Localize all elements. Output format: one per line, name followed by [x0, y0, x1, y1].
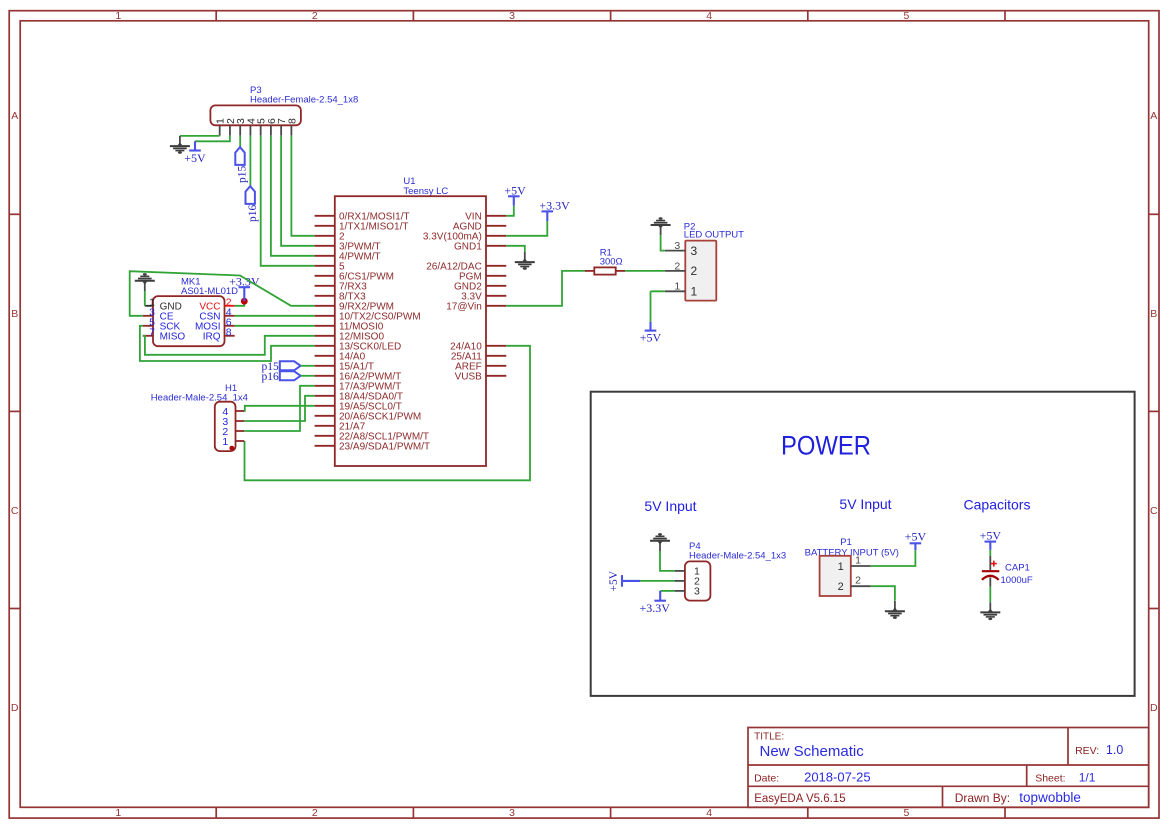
connector P4 body: [685, 561, 711, 600]
connector P3 body: [210, 105, 301, 125]
svg-text:B: B: [1150, 308, 1157, 320]
MK1 pin numbers right 2,4,6,8: [226, 296, 232, 338]
wire P2 pin1 to +5V: [651, 291, 665, 322]
wire P3 pin8 to U1 pin 2: [291, 136, 314, 236]
wire R1 to P2 pin2: [625, 270, 665, 272]
wire CAP1 to ground: [989, 587, 991, 602]
wire U1 17@Vin to R1: [506, 271, 585, 306]
wire U1 3.3V(100mA) to +3.3V: [506, 221, 547, 236]
MK1 pin names left: [160, 301, 186, 342]
svg-text:VUSB: VUSB: [455, 371, 483, 382]
connector P3 pin stubs: [220, 125, 292, 135]
wire U1 GND1 to ground: [506, 246, 525, 252]
svg-text:LED OUTPUT: LED OUTPUT: [684, 229, 744, 240]
svg-text:Sheet:: Sheet:: [1035, 772, 1065, 784]
svg-text:4: 4: [706, 807, 712, 819]
wire P3 pin2 to +5V: [195, 136, 230, 142]
svg-text:4/PWM/T: 4/PWM/T: [339, 251, 381, 262]
svg-text:Header-Male-2.54_1x3: Header-Male-2.54_1x3: [689, 551, 786, 562]
resistor R1 lead stubs: [585, 270, 625, 272]
svg-text:New Schematic: New Schematic: [760, 743, 865, 760]
svg-text:p16: p16: [247, 205, 259, 222]
net port p16 at U1: [262, 371, 301, 383]
wire P3 pin6 to U1 pin 4: [271, 136, 315, 256]
wire P3 pin4 to flag p16: [249, 136, 251, 186]
wire P4 pin2 to +5V: [632, 580, 675, 582]
U1 left pin names: [339, 211, 430, 452]
svg-text:1: 1: [691, 285, 698, 299]
wire H1 pin3 to U1 18/A4/SDA0/T: [244, 396, 314, 421]
wire U1 24/A10 to H1 pin1: [245, 346, 531, 481]
svg-text:2: 2: [838, 581, 844, 593]
power flag +5V at CAP1: [980, 529, 1002, 550]
svg-text:2: 2: [691, 264, 698, 278]
svg-text:Capacitors: Capacitors: [964, 496, 1031, 512]
svg-text:p16: p16: [262, 371, 280, 383]
power flag +5V at U1 VIN: [504, 184, 526, 206]
ground at MK1 GND: [135, 273, 155, 291]
svg-text:CAP1: CAP1: [1005, 562, 1030, 573]
svg-text:4: 4: [706, 10, 712, 22]
frame row ticks left: [9, 214, 20, 608]
svg-text:Header-Female-2.54_1x8: Header-Female-2.54_1x8: [250, 95, 358, 106]
svg-text:23/A9/SDA1/PWM/T: 23/A9/SDA1/PWM/T: [339, 441, 430, 452]
wire MK1 MOSI to U1 11/MOSI0: [235, 325, 315, 327]
svg-text:IRQ: IRQ: [203, 331, 221, 342]
svg-text:REV:: REV:: [1075, 745, 1099, 757]
junction dot at H1 pin1: [229, 446, 234, 451]
svg-text:A: A: [11, 110, 18, 122]
svg-text:GND1: GND1: [454, 241, 482, 252]
ground near P3 pin1: [170, 136, 190, 154]
wire +5V to CAP1: [989, 550, 991, 556]
svg-text:300Ω: 300Ω: [600, 256, 623, 267]
svg-text:+5V: +5V: [640, 331, 662, 345]
svg-text:17@Vin: 17@Vin: [446, 301, 482, 312]
svg-text:5: 5: [903, 10, 909, 22]
wire MK1 CE to U1 9/RX2/PWM (diagonal): [130, 271, 315, 316]
svg-text:8: 8: [286, 118, 298, 124]
wire P4 pin3 to +3.3V: [660, 590, 674, 592]
net port p15 at U1: [262, 361, 301, 373]
H1 pin stubs: [236, 411, 245, 441]
ground above P2: [651, 217, 671, 235]
H1 pin numbers 4,3,2,1: [222, 406, 228, 448]
wire U1 VIN to +5V: [506, 206, 514, 216]
P2 inside pin numbers: [691, 244, 698, 299]
connector P2 body: [685, 241, 716, 301]
net port p16 at P3: [246, 186, 259, 222]
svg-text:A: A: [1150, 110, 1157, 122]
wire p15 to U1 pin 15/A1/T: [301, 365, 315, 367]
connector H1 body: [215, 402, 236, 451]
svg-text:+3.3V: +3.3V: [229, 274, 260, 288]
wire H1 pin4 to U1 19/A5/SCL0/T: [244, 406, 314, 411]
connector P1 body: [820, 556, 851, 596]
svg-text:p15: p15: [237, 166, 249, 184]
net port p15 at P3: [235, 147, 248, 183]
svg-text:1000uF: 1000uF: [1001, 575, 1033, 586]
frame column ticks top: [216, 11, 1005, 21]
wire P2 pin3 to ground: [661, 235, 665, 250]
svg-text:5V Input: 5V Input: [839, 496, 891, 512]
svg-text:1: 1: [838, 561, 844, 573]
wire p16 to U1 pin 16/A2/PWM/T: [301, 375, 315, 377]
wire P1 pin2 to ground: [871, 586, 895, 601]
wire P3 pin7 to U1 pin 3: [281, 136, 315, 246]
title block outline: [748, 728, 1149, 808]
svg-text:Teensy LC: Teensy LC: [403, 186, 448, 197]
svg-text:2: 2: [312, 10, 318, 22]
ground above P4: [650, 533, 670, 551]
svg-text:7: 7: [149, 326, 155, 338]
P2 outside pin numbers: [674, 240, 680, 293]
svg-text:2: 2: [855, 575, 861, 587]
svg-text:3: 3: [691, 244, 698, 258]
MK1 pin numbers left 1,3,5,7: [149, 296, 155, 338]
svg-text:5V Input: 5V Input: [644, 498, 696, 514]
wire MK1 SCK to U1 13/SCK0/LED: [140, 326, 315, 361]
frame row letters left: [11, 110, 19, 714]
connector P3 pin numbers 1-8: [215, 118, 299, 124]
svg-text:B: B: [11, 308, 18, 320]
svg-text:+5V: +5V: [905, 530, 927, 544]
svg-text:1: 1: [115, 10, 121, 22]
frame row letters right: [1150, 110, 1158, 714]
frame column numbers top: [115, 10, 909, 22]
svg-text:1: 1: [222, 436, 228, 448]
svg-text:+5V: +5V: [504, 184, 526, 198]
svg-text:3: 3: [509, 10, 515, 22]
wire P3 pin5 to U1 pin 5: [261, 136, 315, 266]
svg-text:EasyEDA V5.6.15: EasyEDA V5.6.15: [754, 793, 845, 805]
wire P3 pin3 to flag p15: [239, 136, 241, 147]
svg-text:1.0: 1.0: [1106, 743, 1123, 757]
power flag +3.3V at MK1: [229, 274, 260, 301]
svg-text:TITLE:: TITLE:: [754, 732, 784, 743]
svg-text:+3.3V: +3.3V: [539, 199, 570, 213]
svg-text:2: 2: [674, 260, 680, 272]
ground below P1: [885, 601, 905, 619]
wire P3 pin1 to ground: [180, 135, 220, 137]
svg-text:3: 3: [694, 586, 700, 598]
ground at U1 GND1: [515, 252, 535, 270]
svg-text:+3.3V: +3.3V: [639, 601, 670, 615]
svg-text:D: D: [11, 702, 19, 714]
svg-text:Date:: Date:: [754, 772, 779, 784]
svg-text:+5V: +5V: [980, 529, 1002, 543]
svg-text:1: 1: [855, 554, 861, 566]
svg-text:P1: P1: [840, 537, 852, 548]
P1 outside pin numbers: [855, 554, 861, 586]
frame column numbers bottom: [115, 807, 909, 819]
wire MK1 GND pin to ground: [144, 291, 146, 306]
svg-text:topwobble: topwobble: [1019, 790, 1081, 805]
resistor R1 body: [594, 267, 615, 274]
svg-text:2: 2: [312, 807, 318, 819]
svg-text:1/TX1/MISO1/T: 1/TX1/MISO1/T: [339, 221, 408, 232]
wire P4 pin1 to ground: [660, 551, 675, 571]
svg-text:Drawn By:: Drawn By:: [955, 791, 1010, 805]
frame row ticks right: [1149, 214, 1159, 608]
wire P1 pin1 to +5V: [871, 550, 916, 566]
frame column ticks bottom: [216, 807, 1005, 818]
U1 left pin stubs: [315, 216, 335, 446]
U1 right pin stubs: [486, 216, 506, 376]
svg-text:1: 1: [115, 807, 121, 819]
svg-text:POWER: POWER: [781, 431, 871, 461]
wire MK1 MISO to U1 12/MISO0: [143, 336, 315, 355]
capacitor CAP1: [982, 556, 999, 587]
MK1 pin stubs right: [225, 306, 235, 336]
svg-text:2018-07-25: 2018-07-25: [804, 769, 871, 784]
P2 pin stubs: [665, 251, 686, 292]
wire MK1 CSN to U1 10/TX2/CS0/PWM: [235, 315, 315, 317]
P1 inside pin numbers: [838, 561, 844, 593]
op-amp U1 body: [335, 196, 486, 466]
junction dot at MK1 VCC: [241, 298, 248, 305]
svg-text:8: 8: [226, 326, 232, 338]
svg-text:MISO: MISO: [160, 331, 186, 342]
svg-text:3: 3: [674, 240, 680, 252]
ground below CAP1: [980, 602, 1000, 620]
wire H1 pin2 to U1 17/A3/PWM/T: [244, 386, 314, 431]
svg-text:+5V: +5V: [184, 151, 206, 165]
P1 pin stubs: [851, 566, 871, 586]
power flag +3.3V below P4: [639, 591, 670, 615]
svg-text:5: 5: [903, 807, 909, 819]
MK1 pin names right: [195, 301, 221, 342]
power flag +5V near P3: [184, 141, 206, 165]
power flag +5V left of P4 (rotated): [608, 570, 640, 591]
power flag +5V below P2: [640, 322, 662, 345]
svg-text:D: D: [1150, 702, 1158, 714]
svg-text:3: 3: [509, 807, 515, 819]
svg-text:+5V: +5V: [608, 570, 620, 591]
power flag +3.3V at U1: [539, 199, 570, 221]
MK1 pin stubs left: [143, 306, 153, 336]
POWER section box: [591, 392, 1135, 696]
svg-text:1/1: 1/1: [1079, 770, 1096, 784]
power flag +5V at P1: [905, 530, 927, 551]
svg-text:1: 1: [674, 281, 680, 293]
P4 pin stubs: [675, 571, 685, 591]
svg-text:C: C: [1150, 505, 1158, 517]
P4 pin numbers: [694, 566, 700, 598]
U1 right pin names: [423, 211, 482, 382]
svg-text:C: C: [11, 505, 19, 517]
wire MK1 VCC to +3.3V: [235, 301, 245, 306]
module MK1 body: [153, 296, 225, 346]
